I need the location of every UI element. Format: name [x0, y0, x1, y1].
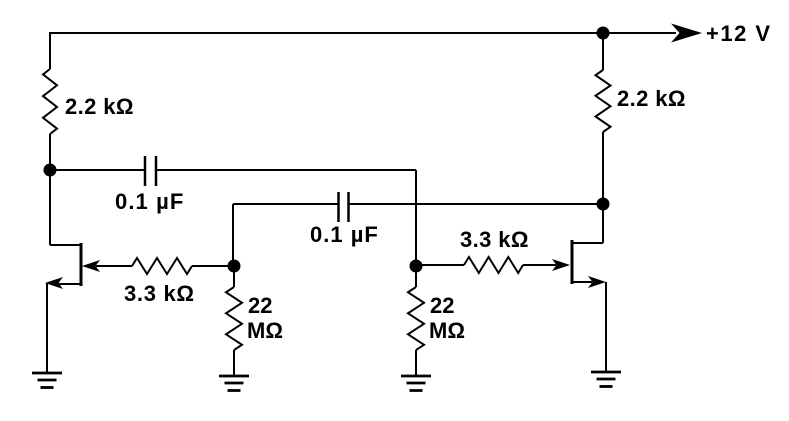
- wire C1 to right cross column: [156, 169, 416, 171]
- transistor Q2 base arrow: [552, 259, 570, 271]
- ground Q2: [591, 372, 621, 387]
- ground left 22M: [219, 376, 249, 391]
- wire Q2 collector up: [602, 204, 604, 243]
- wire Q2 emitter to ground: [605, 282, 607, 372]
- wire R3 to node: [192, 265, 234, 267]
- transistor Q2 emitter arrow: [588, 276, 606, 288]
- transistor Q1 base arrow: [82, 260, 100, 272]
- resistor 2.2 kOhm right: [596, 70, 611, 132]
- svg-text:22: 22: [248, 293, 272, 318]
- supply arrow +12 V: [671, 24, 702, 43]
- svg-text:MΩ: MΩ: [247, 318, 283, 343]
- svg-text:22: 22: [430, 293, 454, 318]
- wire left collector down: [49, 170, 51, 245]
- node left collector: [44, 164, 57, 177]
- transistor Q2 bar: [571, 240, 574, 284]
- capacitor C1 0.1 uF plates: [145, 156, 156, 186]
- wire right 2.2k bottom: [602, 132, 604, 204]
- wire right 22M to ground: [415, 350, 417, 376]
- wire Q1 emitter to ground: [46, 283, 48, 373]
- wire right base node to R4: [416, 264, 464, 266]
- svg-text:MΩ: MΩ: [429, 318, 465, 343]
- wire left 22M stub: [233, 266, 235, 287]
- wire right 22M stub: [415, 266, 417, 287]
- node top rail: [597, 27, 610, 40]
- wire C2 left segment: [233, 203, 338, 205]
- wire Q1 base to R3: [96, 265, 132, 267]
- capacitor C2 0.1 uF plates: [339, 192, 349, 222]
- resistor 3.3 kOhm right: [464, 257, 523, 273]
- svg-text:0.1 µF: 0.1 µF: [115, 189, 184, 214]
- transistor Q1 emitter wire: [58, 283, 81, 285]
- wire left collector column upper: [49, 134, 51, 170]
- ground right 22M: [401, 376, 431, 391]
- transistor Q1 emitter arrow: [45, 277, 63, 289]
- wire left collector to Q1: [50, 244, 81, 246]
- wire node up to C2 rail: [232, 204, 234, 266]
- resistor 22 MOhm left: [226, 287, 242, 350]
- wire left 22M to ground: [233, 350, 235, 376]
- svg-text:3.3 kΩ: 3.3 kΩ: [124, 281, 195, 306]
- transistor Q1 bar: [80, 243, 83, 286]
- resistor 22 MOhm right: [408, 287, 424, 350]
- wire node to C1: [50, 169, 145, 171]
- node right collector: [597, 198, 610, 211]
- transistor Q2 emitter wire: [572, 281, 592, 283]
- svg-text:3.3 kΩ: 3.3 kΩ: [460, 227, 529, 252]
- wire Q2 collector horizontal: [572, 242, 603, 244]
- node right base: [410, 260, 423, 273]
- svg-text:2.2 kΩ: 2.2 kΩ: [617, 86, 686, 111]
- wire C2 right segment: [349, 203, 603, 205]
- wire left rail drop: [49, 32, 51, 69]
- resistor 2.2 kOhm left: [43, 69, 57, 134]
- ground Q1: [32, 373, 62, 388]
- svg-text:0.1 µF: 0.1 µF: [310, 222, 379, 247]
- node left base: [228, 260, 241, 273]
- resistor 3.3 kOhm left: [132, 258, 192, 274]
- wire right 2.2k top: [602, 33, 604, 70]
- svg-text:2.2 kΩ: 2.2 kΩ: [65, 94, 134, 119]
- svg-text:+12 V: +12 V: [706, 21, 772, 46]
- wire R4 to Q2 base: [523, 264, 556, 266]
- wire cross column x416 down: [415, 170, 417, 266]
- wire +12V top rail: [50, 32, 676, 34]
